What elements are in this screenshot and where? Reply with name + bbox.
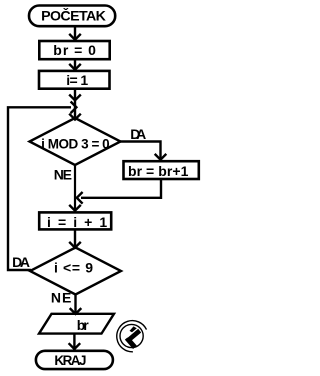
svg-text:DA: DA bbox=[130, 126, 146, 142]
process i = i + 1 bbox=[39, 212, 111, 229]
svg-text:i MOD 3 = 0: i MOD 3 = 0 bbox=[41, 136, 110, 151]
wire br=br+1 back to main line (merge) bbox=[77, 179, 161, 204]
logo icon: small blob bbox=[130, 326, 138, 333]
svg-text:br = 0: br = 0 bbox=[53, 42, 96, 58]
wire i=1 to junction bbox=[69, 90, 81, 100]
process br = 0 bbox=[39, 41, 109, 59]
wire br=0 to i=1 bbox=[69, 60, 81, 70]
wire i=i+1 to decision 2 bbox=[69, 230, 81, 248]
logo icon: outer arc bbox=[117, 321, 147, 352]
svg-text:i <= 9: i <= 9 bbox=[54, 259, 93, 275]
decision i MOD 3 = 0 bbox=[30, 118, 121, 165]
svg-text:NE: NE bbox=[51, 289, 72, 305]
wire decision2 NE to output br bbox=[70, 295, 82, 314]
wire start to br=0 bbox=[69, 27, 81, 40]
output parallelogram br bbox=[39, 314, 114, 334]
svg-text:i= 1: i= 1 bbox=[66, 72, 88, 88]
loop-back wire from i<=9 DA: up left side into junction bbox=[8, 102, 76, 271]
decision i <= 9 bbox=[30, 248, 121, 295]
svg-text:DA: DA bbox=[12, 254, 30, 270]
terminator KRAJ bbox=[36, 351, 113, 369]
svg-text:NE: NE bbox=[54, 166, 72, 182]
wire output to KRAJ bbox=[69, 334, 81, 349]
wire decision1 DA to br=br+1 bbox=[121, 142, 167, 160]
svg-text:br = br+1: br = br+1 bbox=[128, 163, 189, 179]
svg-text:br: br bbox=[77, 317, 90, 333]
logo icon: check band bbox=[128, 331, 139, 348]
logo icon: inner circle bbox=[120, 324, 143, 347]
logo icon: white gap between blob and band bbox=[127, 328, 138, 337]
wire junction to decision 1 bbox=[69, 100, 81, 120]
process br = br+1 bbox=[124, 161, 199, 179]
svg-text:KRAJ: KRAJ bbox=[54, 353, 86, 368]
terminator POČETAK bbox=[29, 6, 115, 27]
wire decision1 NE down to i=i+1 bbox=[69, 165, 81, 211]
svg-text:POČETAK: POČETAK bbox=[41, 7, 107, 25]
process i= 1 bbox=[39, 71, 110, 89]
